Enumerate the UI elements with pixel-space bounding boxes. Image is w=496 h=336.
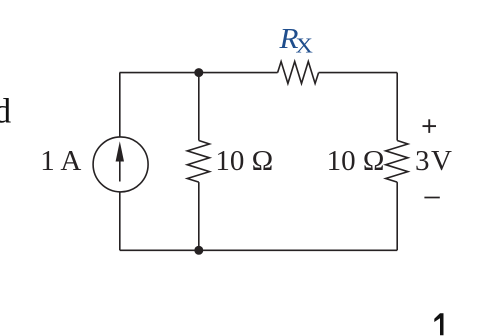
resistor R2 zigzag (middle 10 ohm) — [187, 141, 209, 183]
wire right branch upper segment — [396, 73, 398, 141]
svg-text:3V: 3V — [415, 145, 453, 177]
wire left branch lower segment — [119, 192, 121, 250]
svg-text:10 Ω: 10 Ω — [327, 145, 385, 177]
resistor RX zigzag — [278, 62, 319, 84]
page number 1 — [434, 313, 443, 335]
svg-text:d: d — [0, 92, 12, 131]
wire middle branch upper segment — [198, 73, 200, 141]
svg-text:1 A: 1 A — [40, 145, 81, 177]
svg-text:X: X — [296, 34, 313, 58]
label minus (voltage polarity minus) — [424, 197, 439, 199]
svg-text:10 Ω: 10 Ω — [215, 145, 273, 177]
label + (voltage polarity plus) — [423, 119, 437, 133]
wire right branch lower segment — [396, 182, 398, 250]
wire left branch upper segment — [119, 73, 121, 137]
current source I1 arrow shaft — [119, 159, 121, 182]
resistor R3 zigzag (right 10 ohm) — [386, 141, 408, 183]
current source I1 arrowhead — [116, 141, 124, 161]
current source I1 circle — [93, 137, 148, 192]
wire middle branch lower segment — [198, 182, 200, 250]
node B junction dot (bottom) — [194, 246, 203, 255]
wire bottom horizontal — [120, 249, 397, 251]
wire top-right horizontal (RX right to right corner) — [319, 72, 398, 74]
wire top-left horizontal (top node to RX left) — [120, 72, 278, 74]
node A junction dot (top) — [194, 68, 203, 77]
